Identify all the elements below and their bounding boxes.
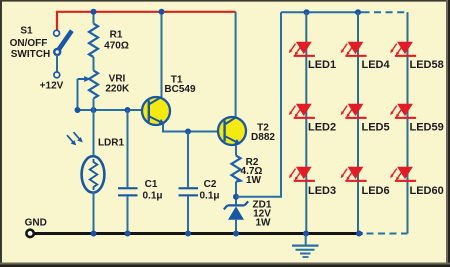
- LED4: [341, 42, 367, 57]
- svg-text:C2: C2: [204, 179, 217, 190]
- label C2 0.1u: [199, 179, 219, 201]
- node rail LDR junction: [91, 231, 97, 237]
- svg-text:LED2: LED2: [308, 121, 336, 133]
- wire R2 to zener node: [235, 182, 237, 206]
- svg-text:LED5: LED5: [362, 121, 390, 133]
- label T2 D882: [251, 123, 275, 143]
- LED3: [289, 167, 315, 182]
- transistor T2: [218, 117, 246, 145]
- wire ground rail: [34, 232, 363, 235]
- wire T2 emitter to R2: [235, 145, 237, 156]
- node rail ZD1 junction: [233, 231, 239, 237]
- capacitor C2: [179, 187, 199, 196]
- node VR1 bottom junction: [91, 107, 97, 113]
- svg-text:470Ω: 470Ω: [104, 40, 129, 51]
- wire C1 bottom: [127, 196, 129, 233]
- LED5: [341, 104, 367, 119]
- potentiometer VR1: [78, 71, 99, 99]
- node top rail column 2: [355, 9, 361, 15]
- svg-text:LED4: LED4: [362, 59, 391, 71]
- wire +12V red rail: [57, 12, 236, 31]
- svg-text:LED6: LED6: [362, 185, 390, 197]
- svg-text:0.1μ: 0.1μ: [142, 191, 162, 202]
- label ZD1 12V 1W: [253, 200, 272, 229]
- svg-text:GND: GND: [25, 218, 47, 229]
- wire ZD1 to ground rail: [235, 220, 237, 234]
- label T1 BC549: [164, 75, 196, 95]
- node T1 collector junction: [159, 9, 165, 15]
- svg-text:BC549: BC549: [164, 84, 196, 95]
- LED2: [289, 104, 315, 119]
- wire T2 collector to rail: [235, 12, 237, 118]
- label R1 470ohm: [104, 29, 129, 51]
- LED6: [341, 167, 367, 182]
- svg-text:SWITCH: SWITCH: [11, 49, 50, 60]
- svg-text:220K: 220K: [105, 83, 130, 94]
- wire R1 to VR1: [93, 57, 95, 71]
- wire VR1 wiper: [77, 79, 79, 110]
- wire T1 emitter to T2 base: [163, 125, 224, 132]
- LED58: [390, 42, 416, 57]
- svg-text:S1: S1: [20, 26, 33, 37]
- resistor R2: [232, 156, 241, 182]
- svg-text:LED59: LED59: [410, 121, 444, 133]
- svg-text:LED1: LED1: [308, 59, 336, 71]
- svg-text:LED60: LED60: [410, 185, 444, 197]
- LDR1: [67, 132, 104, 192]
- wire VR1 to LDR1: [93, 99, 95, 158]
- svg-text:ON/OFF: ON/OFF: [10, 38, 48, 49]
- wire dashed bottom rail: [367, 233, 408, 235]
- svg-text:R1: R1: [110, 29, 123, 40]
- node rail C2 junction: [185, 231, 191, 237]
- node C2 top junction: [185, 129, 191, 135]
- wire LDR1 to ground rail: [93, 192, 95, 234]
- node C1 top junction: [125, 107, 131, 113]
- label S1 ON/OFF SWITCH: [10, 26, 51, 61]
- wire dashed top rail: [374, 11, 408, 13]
- wire LED column 2: [357, 12, 359, 233]
- svg-text:1W: 1W: [246, 175, 262, 186]
- LED59: [390, 104, 416, 119]
- node wiper junction: [75, 107, 81, 113]
- wire LED column 3: [407, 12, 409, 233]
- svg-text:0.1μ: 0.1μ: [199, 191, 219, 202]
- node GND terminal: [26, 230, 33, 237]
- node rail LED column 1 junction: [303, 231, 309, 237]
- node +12V terminal: [54, 72, 60, 78]
- switch S1: [53, 30, 72, 56]
- svg-text:D882: D882: [251, 132, 275, 143]
- wire top of R1: [93, 12, 95, 24]
- label VR1 220K: [105, 73, 130, 94]
- zener diode ZD1: [224, 201, 248, 219]
- svg-text:LDR1: LDR1: [98, 138, 125, 149]
- wire C2 bottom: [187, 196, 189, 233]
- label R2 4.7ohm 1W: [241, 157, 263, 186]
- LED60: [390, 167, 416, 182]
- label C1 0.1u: [142, 179, 162, 201]
- svg-text:1W: 1W: [256, 217, 272, 228]
- wire C1 top: [127, 110, 129, 187]
- svg-text:LED3: LED3: [308, 185, 336, 197]
- transistor T1: [142, 97, 170, 125]
- label LED1: [308, 59, 444, 197]
- LED1: [289, 42, 315, 57]
- svg-text:LED58: LED58: [410, 59, 444, 71]
- node top rail column 1: [304, 9, 310, 15]
- resistor R1: [89, 24, 98, 57]
- capacitor C1: [118, 187, 138, 196]
- node LED feed junction: [233, 194, 239, 200]
- wire LED feed to matrix: [236, 12, 281, 197]
- wire LED matrix top rail: [281, 11, 370, 13]
- svg-text:+12V: +12V: [40, 81, 64, 92]
- wire T1 collector to rail: [161, 12, 163, 97]
- wire LED column 1: [305, 12, 307, 233]
- svg-text:C1: C1: [145, 179, 158, 190]
- ground: [292, 235, 319, 258]
- wire base line: [78, 109, 149, 111]
- node rail C1 junction: [125, 231, 131, 237]
- node R1 top junction: [91, 9, 97, 15]
- wire C2 top: [187, 132, 189, 188]
- node rail LED column 2 junction: [356, 231, 362, 237]
- wire switch to +12V terminal: [56, 55, 58, 72]
